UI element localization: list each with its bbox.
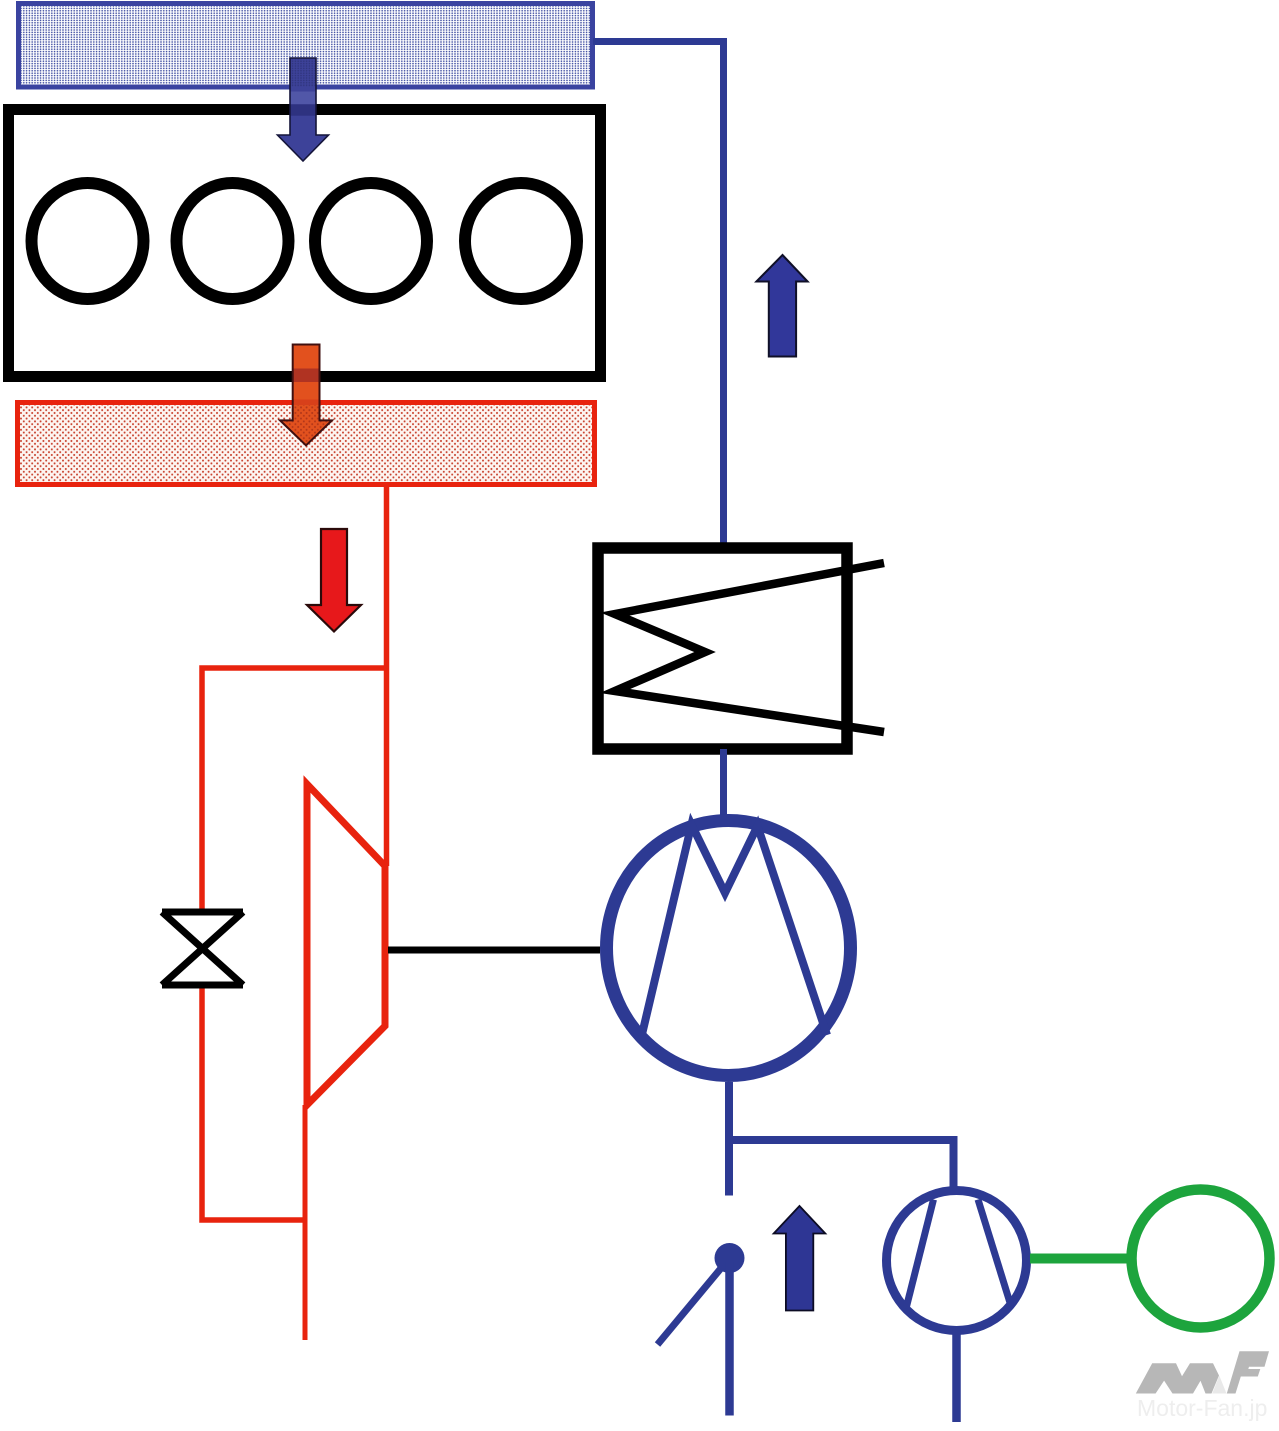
drive link xyxy=(1030,1254,1131,1264)
exhaust manifold xyxy=(18,403,595,485)
boost flow arrow up xyxy=(756,255,807,357)
throttle valve plate xyxy=(658,1258,730,1345)
cooling air zigzag xyxy=(615,563,884,732)
throttle pivot xyxy=(715,1243,745,1273)
exhaust pipe down to turbine xyxy=(384,485,390,866)
supercharger blade right xyxy=(978,1200,1011,1307)
intake flow arrow into engine xyxy=(277,58,329,161)
Motor-Fan logo F xyxy=(1227,1351,1269,1393)
intercooler box xyxy=(598,548,847,749)
supercharger blade left xyxy=(906,1200,934,1309)
compressor (turbo) xyxy=(607,821,851,1076)
engine block xyxy=(9,110,601,377)
intercooler inlet pipe xyxy=(720,749,727,820)
hot exhaust arrow xyxy=(307,529,361,632)
intake manifold plenum xyxy=(19,4,593,88)
cylinder 2 xyxy=(177,183,289,299)
branch to supercharger xyxy=(725,1140,954,1189)
wastegate bypass line lower xyxy=(202,985,305,1220)
Motor-Fan logo light triangle xyxy=(1212,1376,1226,1394)
wastegate valve xyxy=(162,912,243,985)
engine drive pulley xyxy=(1132,1190,1270,1328)
compressor blades xyxy=(642,825,828,1037)
cylinder 4 xyxy=(465,183,577,299)
turbo shaft xyxy=(388,947,600,954)
intake flow arrow up (bottom) xyxy=(774,1206,826,1311)
supercharger xyxy=(887,1191,1027,1331)
charge pipe from intercooler to plenum xyxy=(593,42,724,549)
compressor outlet pipe xyxy=(725,1082,733,1196)
cylinder 3 xyxy=(315,183,427,299)
svg-text:Motor-Fan.jp: Motor-Fan.jp xyxy=(1137,1395,1267,1421)
cylinder 1 xyxy=(32,183,144,299)
turbine outlet pipe xyxy=(303,1105,308,1340)
throttle outlet pipe xyxy=(725,1262,734,1416)
turbine xyxy=(307,784,385,1105)
wastegate bypass line upper xyxy=(202,668,387,912)
Motor-Fan logo M xyxy=(1136,1363,1219,1393)
exhaust flow arrow out of engine xyxy=(279,345,333,448)
supercharger outlet pipe xyxy=(952,1330,961,1422)
